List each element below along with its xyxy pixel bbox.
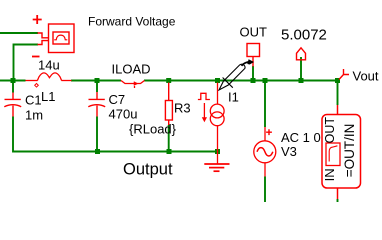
svg-text:IN: IN (322, 168, 337, 181)
junction A2 (95, 78, 100, 83)
wire V3 top (264, 81, 266, 128)
svg-text:AC 1 0: AC 1 0 (281, 130, 321, 145)
svg-text:5.0072: 5.0072 (281, 26, 327, 43)
capacitor C1 (4, 93, 21, 117)
svg-text:V3: V3 (281, 144, 297, 159)
inductor L1 (26, 73, 72, 81)
svg-text:{RLoad}: {RLoad} (129, 122, 177, 137)
svg-text:Vout: Vout (353, 68, 379, 83)
wire L1 right (71, 80, 121, 82)
V1 minus (32, 56, 40, 58)
V1 pin 1 (38, 33, 49, 38)
voltage probe house (297, 48, 306, 60)
wire V3 bottom (264, 177, 266, 203)
junction A4 (215, 78, 220, 83)
junction B1 (95, 149, 100, 154)
junction A1 (11, 78, 341, 154)
wire block bottom (337, 199, 339, 202)
junction A8 (335, 78, 340, 83)
current probe ILOAD (121, 81, 145, 89)
transfer block box (322, 105, 361, 199)
svg-text:Forward Voltage: Forward Voltage (88, 15, 176, 29)
junction A5 (251, 78, 256, 83)
svg-text:OUT: OUT (323, 117, 337, 144)
capacitor C7 (88, 92, 105, 117)
junction A6 (263, 78, 268, 83)
wire R3 bottom (168, 125, 170, 152)
AC source V3 (254, 127, 276, 177)
ground (204, 164, 229, 171)
junction B3 (215, 149, 220, 154)
resistor R3 (165, 83, 172, 126)
L1 marker diamond (35, 84, 39, 88)
wire bottom bus (13, 117, 218, 152)
V3 plus (266, 129, 272, 135)
junction A3 (166, 78, 171, 83)
current source I1 (198, 83, 224, 164)
junction A7 (299, 78, 304, 83)
svg-text:C1: C1 (25, 93, 42, 108)
svg-text:14u: 14u (38, 58, 60, 73)
wire OUT probe (252, 66, 254, 81)
wire C7 top (96, 81, 98, 93)
wire probe5 (300, 57, 302, 81)
probe pencil (219, 62, 249, 90)
junction B2 (167, 149, 172, 154)
block glyph box (326, 143, 340, 166)
svg-text:Output: Output (123, 161, 173, 179)
I1 pulse glyph (198, 93, 210, 99)
wire C1 top (12, 81, 14, 93)
V1 pin 2 (38, 41, 49, 45)
voltage probe V1 box (32, 15, 74, 57)
svg-text:R3: R3 (174, 101, 191, 116)
wire V1 bottom lead (14, 45, 39, 81)
wire top bus right segment (144, 80, 338, 82)
I1 arrow (203, 103, 205, 118)
svg-text:L1: L1 (41, 89, 55, 104)
wire V1 top lead (0, 32, 38, 34)
svg-text:470u: 470u (109, 107, 138, 122)
wire top bus left segment (0, 33, 338, 202)
svg-text:C7: C7 (109, 92, 126, 107)
pencil arrowhead (247, 59, 254, 64)
OUT probe box (247, 44, 260, 67)
svg-text:OUT: OUT (240, 24, 268, 39)
svg-text:=OUT/IN: =OUT/IN (342, 124, 357, 178)
V1 plus (33, 15, 42, 24)
svg-text:ILOAD: ILOAD (112, 62, 151, 77)
wire C7 bottom (96, 117, 98, 152)
I1 arrowhead (202, 117, 207, 122)
ILOAD arrowhead (134, 81, 139, 86)
Vout flag (339, 69, 349, 80)
svg-text:I1: I1 (228, 90, 239, 105)
wire block top (337, 81, 339, 106)
svg-text:1m: 1m (25, 108, 43, 123)
